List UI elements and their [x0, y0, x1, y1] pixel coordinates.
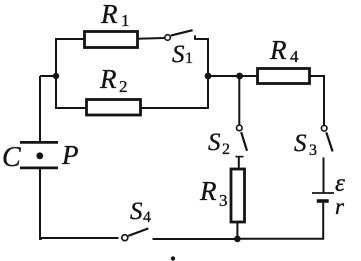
resistor R4	[258, 35, 310, 84]
svg-text:S: S	[294, 130, 307, 157]
wire: junction A to junction B	[208, 75, 240, 77]
wire: battery down to bottom rail	[236, 203, 323, 239]
svg-text:P: P	[61, 140, 79, 170]
svg-text:2: 2	[222, 141, 230, 158]
svg-text:r: r	[335, 194, 345, 219]
wire: R2 branch left	[55, 107, 87, 109]
svg-text:4: 4	[143, 209, 151, 226]
svg-text:1: 1	[185, 50, 193, 67]
node: junction A on S1 vertical	[205, 73, 212, 80]
wire: S2 to R3	[238, 157, 240, 169]
wire: R3 bottom to rail	[236, 222, 238, 239]
node: junction B (top of S2)	[236, 73, 243, 80]
wire: bottom rail right segment (S4 to junction C)	[153, 238, 238, 240]
wire: capacitor bottom to rail corner	[40, 169, 42, 239]
switch S3	[294, 126, 333, 160]
svg-text:3: 3	[219, 191, 228, 210]
wire: left bridge vertical (R1-R2)	[55, 38, 57, 109]
wire: S3 to battery	[323, 158, 325, 193]
resistor R1	[85, 0, 138, 48]
switch S1	[165, 30, 195, 68]
svg-text:S: S	[130, 198, 143, 225]
switch S4	[122, 198, 151, 241]
svg-text:R: R	[100, 0, 118, 29]
wire: R2 right to vertical	[140, 107, 209, 109]
svg-text:4: 4	[290, 47, 299, 66]
stray mark (cropped caption)	[171, 256, 175, 260]
battery (emf, internal resistance r)	[312, 170, 345, 219]
svg-text:R: R	[99, 64, 117, 94]
svg-text:S: S	[172, 41, 185, 68]
capacitor C (plates with charge dot, labels C and P)	[2, 76, 79, 173]
resistor R3	[199, 169, 245, 222]
wire: junction B to R4	[240, 75, 257, 77]
svg-text:C: C	[2, 142, 21, 173]
wire: bottom rail left segment	[40, 237, 119, 239]
node: junction left (dot)	[40, 73, 59, 79]
svg-text:S: S	[208, 129, 221, 156]
resistor R2	[87, 64, 141, 115]
wire: R4 right corner down to S3	[309, 76, 324, 126]
wire: R1 to S1	[137, 37, 164, 40]
wire: S1 right to corner down to R2 level	[194, 39, 208, 108]
svg-text:R: R	[199, 176, 217, 206]
wire: R1 branch left	[55, 38, 85, 40]
node: junction C (R3 bottom on rail)	[234, 236, 241, 243]
svg-text:ε: ε	[335, 170, 345, 197]
svg-text:2: 2	[119, 77, 128, 96]
svg-text:R: R	[269, 35, 287, 65]
switch S2	[208, 76, 247, 158]
svg-text:3: 3	[309, 142, 317, 159]
svg-text:1: 1	[121, 11, 130, 30]
